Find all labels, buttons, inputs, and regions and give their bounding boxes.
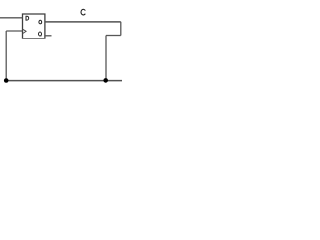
wire jog horizontal [106, 35, 121, 37]
wire clock feedback vertical [5, 31, 7, 81]
wire clock horizontal [6, 30, 22, 32]
D flip-flop U1 body [23, 14, 45, 38]
node C label [81, 9, 85, 15]
wire right edge vertical upper [120, 22, 122, 36]
wire D input [0, 17, 23, 19]
clock input triangle [23, 29, 27, 33]
pin label Qbar [39, 32, 42, 36]
junction left [4, 78, 9, 83]
wire bottom bus [6, 80, 122, 82]
wire right vertical [105, 36, 107, 81]
wire Q output top [45, 21, 121, 23]
junction right [103, 78, 108, 83]
pin label Q [39, 20, 42, 24]
pin label D [26, 16, 29, 20]
wire Qbar stub [45, 35, 52, 37]
